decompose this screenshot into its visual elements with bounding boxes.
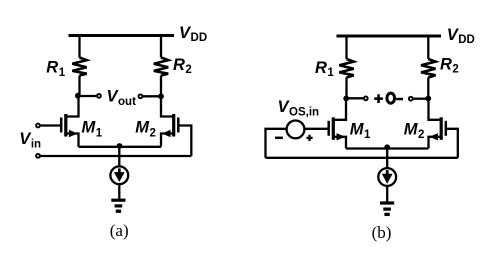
node: M1 drain junction (b): [343, 96, 349, 102]
wire: R2 to drain node (b): [427, 78, 429, 99]
label: plus polarity of VOS,in (b): [306, 135, 312, 141]
terminal: Vout left open circle (a): [97, 94, 101, 98]
wire: VOS,in left terminal down to return line (b): [266, 129, 287, 158]
resistor R2 (b): [421, 59, 435, 78]
label: minus sign of zero output (b): [396, 98, 403, 101]
svg-text:M1: M1: [350, 120, 371, 141]
node: M1 drain junction (a): [75, 93, 81, 99]
wire: R1 to drain node (a): [78, 76, 80, 97]
wire: R1 to drain node (b): [345, 78, 347, 99]
node: M2 drain junction (a): [158, 93, 164, 99]
svg-text:VDD: VDD: [447, 26, 475, 46]
ground (a): [111, 200, 125, 211]
wire: VDD supply rail (b): [337, 34, 442, 37]
svg-text:(a): (a): [110, 221, 129, 240]
wire: Vin+ to M1 gate (a): [40, 124, 60, 126]
wire: drain node to + terminal (b): [346, 97, 363, 99]
wire: M2 gate to return line (a): [180, 126, 192, 157]
node: tail junction (a): [117, 143, 123, 149]
wire: return line (b): [266, 157, 458, 159]
svg-text:R2: R2: [440, 56, 459, 76]
svg-text:R1: R1: [315, 59, 334, 79]
terminal: Vin- open circle (a): [36, 154, 40, 158]
svg-text:M2: M2: [135, 119, 156, 140]
wire: R2 to drain node (a): [160, 76, 162, 97]
label: plus sign of zero output (b): [374, 94, 383, 103]
wire: common source line (a): [79, 146, 162, 148]
voltage source VOS,in (b): [287, 120, 305, 138]
terminal: left open circle of zero output (b): [364, 97, 368, 101]
wire: Vout+ terminal to M2 drain node (a): [143, 95, 161, 97]
wire: tail node to current source (a): [118, 147, 120, 166]
node: tail junction (b): [384, 144, 390, 150]
wire: rail to R1 (a): [78, 36, 80, 58]
svg-text:Vout: Vout: [107, 87, 137, 108]
current source ISS (a): [110, 166, 128, 184]
wire: terminal to M2 drain node (b): [413, 98, 428, 100]
wire: tail node to current source (b): [386, 149, 388, 169]
ground (b): [380, 203, 394, 214]
svg-text:VDD: VDD: [179, 24, 207, 44]
svg-text:Vin: Vin: [19, 130, 41, 151]
wire: rail to R1 (b): [345, 36, 347, 59]
label: zero output value 0 (b): [387, 93, 395, 103]
svg-text:R1: R1: [46, 59, 65, 79]
resistor R2 (a): [154, 58, 168, 76]
wire: drain node to Vout- terminal (a): [78, 95, 96, 97]
current source ISS (b): [378, 168, 396, 186]
wire: current source to ground (b): [386, 186, 388, 203]
transistor M1 (a): [61, 96, 78, 147]
transistor M2 (b): [429, 99, 446, 149]
transistor M1 (b): [329, 98, 346, 148]
wire: common source line (b): [346, 147, 428, 149]
resistor R1 (a): [72, 58, 86, 76]
node: M2 drain junction (b): [425, 96, 431, 102]
wire: VDD supply rail (a): [69, 34, 175, 37]
terminal: Vout right open circle (a): [139, 94, 143, 98]
label: minus polarity of VOS,in (b): [275, 137, 283, 140]
wire: VOS,in to M1 gate (b): [305, 128, 328, 130]
svg-text:M2: M2: [404, 120, 425, 141]
svg-text:R2: R2: [173, 56, 192, 76]
svg-text:M1: M1: [82, 119, 103, 140]
terminal: Vin+ open circle (a): [36, 124, 40, 128]
wire: current source to ground (a): [118, 184, 120, 200]
terminal: right open circle of zero output (b): [409, 97, 413, 101]
svg-text:(b): (b): [372, 223, 392, 242]
wire: Vin- return line (a): [40, 155, 191, 157]
wire: M2 gate to return line (b): [447, 129, 458, 158]
wire: rail to R2 (b): [427, 36, 429, 59]
transistor M2 (a): [161, 96, 178, 147]
resistor R1 (b): [339, 59, 353, 78]
svg-text:VOS,in: VOS,in: [278, 98, 320, 118]
wire: rail to R2 (a): [160, 36, 162, 58]
